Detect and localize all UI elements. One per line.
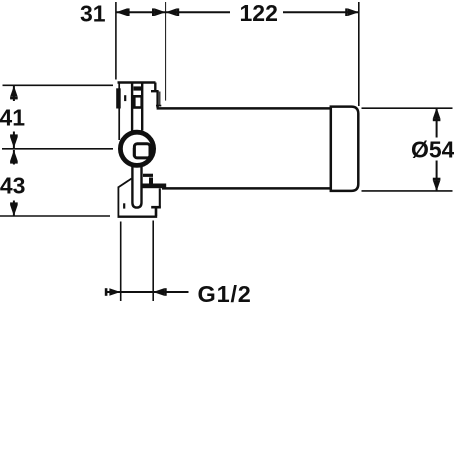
svg-text:122: 122 <box>240 0 278 26</box>
svg-text:G1/2: G1/2 <box>198 281 252 307</box>
svg-text:43: 43 <box>0 173 25 199</box>
svg-text:41: 41 <box>0 104 25 130</box>
svg-text:Ø54: Ø54 <box>411 136 454 162</box>
svg-text:31: 31 <box>80 1 106 27</box>
